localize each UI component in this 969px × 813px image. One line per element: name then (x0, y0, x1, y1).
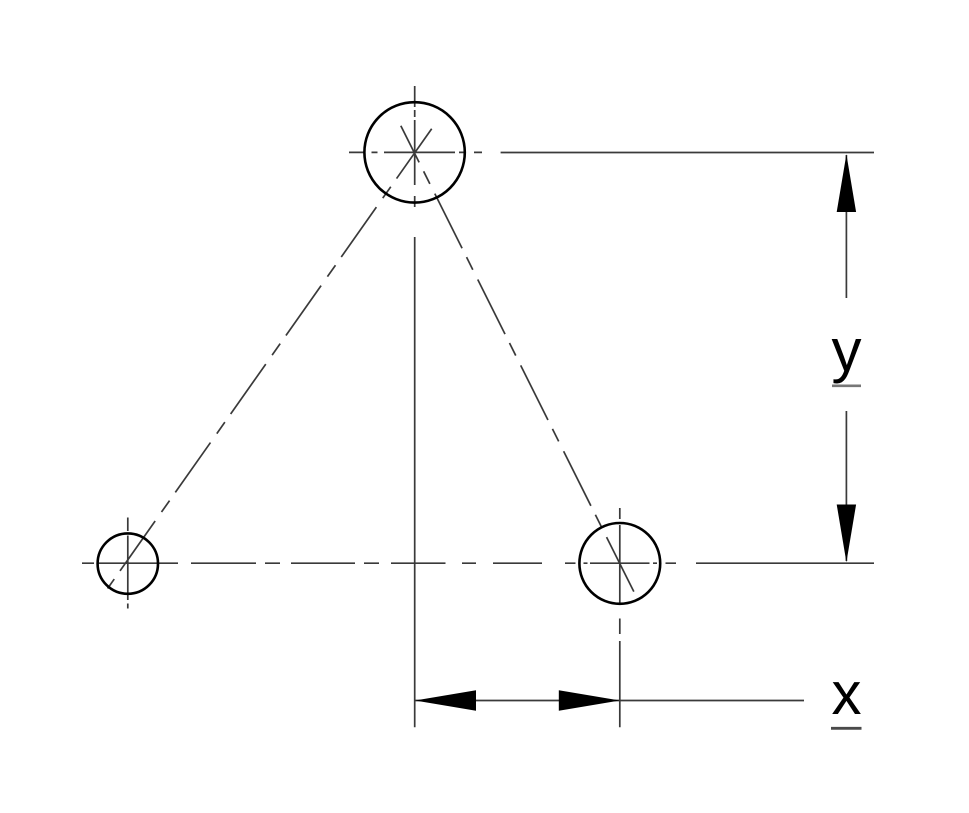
svg-text:x: x (832, 660, 862, 727)
svg-text:y: y (832, 317, 862, 384)
